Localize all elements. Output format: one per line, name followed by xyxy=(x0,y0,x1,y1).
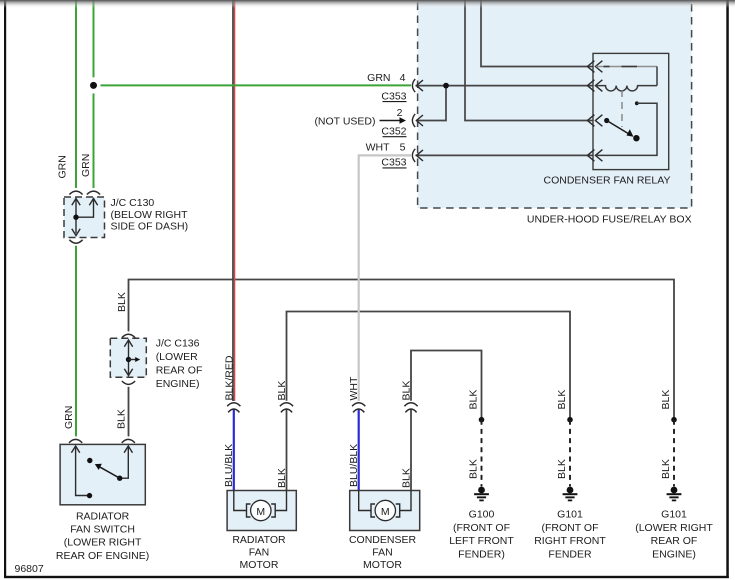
svg-text:(LOWER RIGHT: (LOWER RIGHT xyxy=(635,522,713,534)
inline connector BLK/RED to BLU/BLK xyxy=(227,403,240,413)
J/C C130 box xyxy=(64,197,105,238)
condenser fan relay box xyxy=(593,53,669,169)
svg-text:BLK: BLK xyxy=(468,390,480,410)
junction dot ground drop G101 (fender) xyxy=(567,417,573,423)
relay internal top wire xyxy=(596,66,657,68)
J/C C136 tap arrow xyxy=(129,359,137,361)
switch arm xyxy=(100,467,120,478)
ground G101 symbol (fender) xyxy=(563,487,578,502)
condenser fan motor box xyxy=(350,491,420,531)
svg-text:C352: C352 xyxy=(381,125,406,137)
svg-text:REAR OF: REAR OF xyxy=(651,535,698,547)
wire GRN vertical 1 xyxy=(75,0,77,188)
svg-text:BLK: BLK xyxy=(660,459,672,479)
relay pin 4 arrows xyxy=(587,150,602,162)
dashed BLK wire to G100 xyxy=(481,420,483,487)
svg-text:G101: G101 xyxy=(557,509,583,521)
wire C353 pin5 to relay pin 4 xyxy=(416,154,594,156)
connector C353 pin 5 symbol xyxy=(412,149,423,162)
relay pin 1 arrows xyxy=(587,61,602,73)
relay switch contact dot xyxy=(633,135,639,141)
svg-text:BLK: BLK xyxy=(468,459,480,479)
svg-text:(LOWER RIGHT: (LOWER RIGHT xyxy=(64,537,142,549)
relay switch pivot dot xyxy=(604,118,609,123)
svg-text:CONDENSER FAN RELAY: CONDENSER FAN RELAY xyxy=(544,175,671,187)
svg-text:(FRONT OF: (FRONT OF xyxy=(453,522,510,534)
svg-text:MOTOR: MOTOR xyxy=(240,559,279,571)
junction dot ground drop G101 (engine) xyxy=(671,417,677,423)
svg-text:LEFT FRONT: LEFT FRONT xyxy=(449,535,514,547)
J/C C130 internal left pin xyxy=(75,199,77,234)
svg-text:BLK/RED: BLK/RED xyxy=(223,355,235,400)
relay pin 2 arrows xyxy=(587,80,602,92)
wire BLK to condenser fan motor xyxy=(410,409,412,491)
svg-text:RIGHT FRONT: RIGHT FRONT xyxy=(534,535,606,547)
svg-text:ENGINE): ENGINE) xyxy=(652,548,696,560)
relay pin 3 arrows xyxy=(587,115,602,127)
frame top shadow xyxy=(0,0,735,8)
svg-text:(FRONT OF: (FRONT OF xyxy=(542,522,599,534)
radiator motor internal wires xyxy=(234,491,247,511)
J/C C136 connector arc (bottom) xyxy=(122,381,135,384)
condenser motor M circle xyxy=(375,500,395,520)
condenser motor internal wires xyxy=(359,491,371,511)
radiator fan switch connector arcs xyxy=(69,439,82,442)
wire GRN vertical 2 xyxy=(93,0,95,77)
svg-text:FAN: FAN xyxy=(249,546,269,558)
svg-text:C353: C353 xyxy=(381,90,406,102)
svg-text:SIDE OF DASH): SIDE OF DASH) xyxy=(111,221,189,233)
svg-text:WHT: WHT xyxy=(366,142,390,154)
J/C C136 box xyxy=(110,338,146,377)
svg-text:GRN: GRN xyxy=(57,155,69,178)
ground bus 3 xyxy=(411,351,482,420)
svg-text:BLU/BLK: BLU/BLK xyxy=(348,444,360,487)
svg-text:J/C C136: J/C C136 xyxy=(156,337,200,349)
wire GRN horizontal to C353 xyxy=(101,84,412,86)
svg-text:BLK: BLK xyxy=(116,292,128,312)
J/C C136 connector arc (top) xyxy=(122,334,135,337)
ground G100 symbol xyxy=(474,487,489,502)
wire C352 stub xyxy=(416,86,446,121)
junction dot GRN xyxy=(90,82,97,89)
frame bottom xyxy=(4,576,729,578)
wire GRN below J/C C130 xyxy=(75,246,77,437)
J/C C136 junction dot xyxy=(126,357,131,362)
ground G101 symbol (engine) xyxy=(667,487,682,502)
svg-text:ENGINE): ENGINE) xyxy=(156,378,200,390)
svg-text:RADIATOR: RADIATOR xyxy=(76,511,130,523)
relay internal wire to pin 4 xyxy=(596,103,657,155)
radiator fan motor box xyxy=(227,491,296,531)
radiator motor M circle xyxy=(251,500,271,520)
wire BLU/BLK to condenser fan motor xyxy=(358,409,360,491)
svg-text:BLK: BLK xyxy=(116,409,128,429)
svg-text:BLK: BLK xyxy=(276,381,288,401)
svg-text:(LOWER: (LOWER xyxy=(156,351,198,363)
svg-text:FENDER: FENDER xyxy=(548,548,592,560)
svg-text:UNDER-HOOD FUSE/RELAY BOX: UNDER-HOOD FUSE/RELAY BOX xyxy=(527,214,692,226)
svg-text:(BELOW RIGHT: (BELOW RIGHT xyxy=(111,209,189,221)
wire to relay pin 1 (from top) xyxy=(481,0,593,67)
svg-text:GRN: GRN xyxy=(80,154,92,177)
svg-text:BLK: BLK xyxy=(276,468,288,488)
wire WHT from C353 pin5 xyxy=(359,155,411,401)
svg-text:CONDENSER: CONDENSER xyxy=(349,534,417,546)
svg-text:5: 5 xyxy=(400,142,406,154)
svg-text:REAR OF ENGINE): REAR OF ENGINE) xyxy=(56,550,149,562)
relay switch arm xyxy=(607,121,629,135)
svg-text:(NOT USED): (NOT USED) xyxy=(314,115,375,127)
dashed BLK wire to G101 (fender) xyxy=(569,420,571,487)
ground bus 2 xyxy=(287,312,571,420)
wire BLK below J/C C136 xyxy=(128,387,130,437)
switch left pin xyxy=(76,446,88,496)
svg-text:FAN SWITCH: FAN SWITCH xyxy=(70,524,135,536)
under-hood fuse/relay box xyxy=(418,0,692,208)
J/C C130 connector arcs (top) xyxy=(69,191,82,194)
svg-text:FENDER): FENDER) xyxy=(458,548,505,560)
wire BLK/RED vertical xyxy=(232,0,234,401)
svg-text:BLK: BLK xyxy=(660,390,672,410)
(NOT USED) pointer arrow xyxy=(380,120,402,122)
J/C C130 internal right pin xyxy=(76,199,94,218)
svg-text:2: 2 xyxy=(397,107,403,119)
svg-text:M: M xyxy=(256,506,265,518)
svg-text:BLK: BLK xyxy=(401,468,413,488)
relay fixed contact dot xyxy=(635,101,639,105)
wire BLU/BLK to radiator fan motor xyxy=(233,409,235,491)
J/C C136 internal pin xyxy=(128,340,130,374)
condenser motor brushes xyxy=(371,504,375,517)
svg-text:RADIATOR: RADIATOR xyxy=(232,534,286,546)
svg-text:WHT: WHT xyxy=(348,376,360,400)
relay mechanical link (dashed) xyxy=(621,90,623,127)
J/C C130 connector arc (bottom) xyxy=(69,240,82,243)
svg-text:BLU/BLK: BLU/BLK xyxy=(223,444,235,487)
svg-text:96807: 96807 xyxy=(15,563,44,575)
inline connector WHT to BLU/BLK xyxy=(352,403,365,413)
switch upper contact dot xyxy=(87,458,92,463)
J/C C130 exit arrow xyxy=(72,229,80,236)
svg-text:BLK: BLK xyxy=(556,459,568,479)
wire to relay pin 3 (from top) xyxy=(465,0,593,121)
wire BLK to radiator fan motor xyxy=(286,409,288,491)
svg-text:J/C C130: J/C C130 xyxy=(111,197,155,209)
junction dot on coil wire xyxy=(443,83,449,89)
svg-text:C353: C353 xyxy=(381,157,406,169)
svg-text:G100: G100 xyxy=(469,509,495,521)
svg-text:4: 4 xyxy=(400,72,406,84)
svg-text:REAR OF: REAR OF xyxy=(156,364,203,376)
svg-text:GRN: GRN xyxy=(63,406,75,429)
wire C353 pin4 to relay coil xyxy=(416,85,594,87)
connector C353 pin 4 symbol xyxy=(412,79,423,92)
J/C C130 junction dot xyxy=(73,215,78,220)
svg-text:M: M xyxy=(381,506,390,518)
inline connector BLK (radiator) xyxy=(280,403,293,413)
connector C352 pin 2 symbol xyxy=(412,114,423,127)
junction dot ground drop G100 xyxy=(479,417,485,423)
svg-text:BLK: BLK xyxy=(556,390,568,410)
frame left xyxy=(4,0,6,578)
radiator motor brushes xyxy=(247,504,251,517)
svg-text:FAN: FAN xyxy=(372,546,392,558)
inline connector BLK (condenser) xyxy=(404,403,417,413)
switch right pin xyxy=(122,446,129,478)
switch pivot dot xyxy=(117,476,122,481)
dashed BLK wire to G101 (engine) xyxy=(673,420,675,487)
svg-text:GRN: GRN xyxy=(367,72,390,84)
svg-text:MOTOR: MOTOR xyxy=(363,559,402,571)
svg-text:G101: G101 xyxy=(661,509,687,521)
relay coil xyxy=(596,86,657,91)
radiator fan switch box xyxy=(60,444,145,504)
ground bus 1 xyxy=(129,280,675,420)
svg-text:BLK: BLK xyxy=(401,381,413,401)
switch left contact dot xyxy=(87,493,92,498)
frame right xyxy=(726,0,729,578)
